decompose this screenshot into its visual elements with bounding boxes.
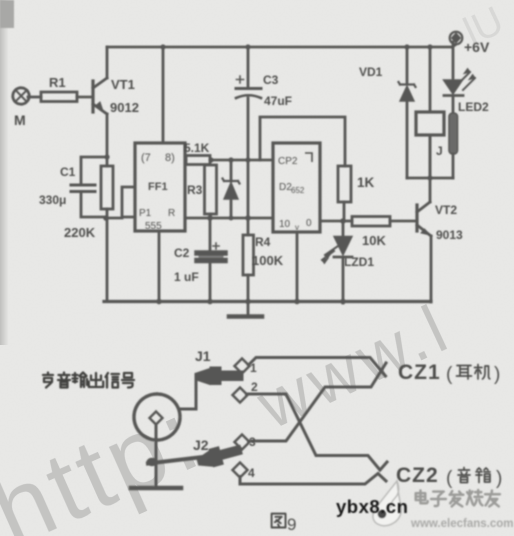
node rail-IC1 dot: [160, 44, 165, 49]
svg-text:100K: 100K: [252, 253, 284, 268]
svg-text:0: 0: [306, 218, 312, 229]
svg-text:M: M: [14, 112, 26, 128]
svg-text:VD1: VD1: [359, 65, 383, 79]
node R4 column top dot: [245, 157, 250, 162]
wire C1 branch top: [81, 157, 107, 184]
node rail-C3 dot: [245, 44, 250, 49]
svg-text:R1: R1: [49, 75, 66, 90]
wire IC1 top pin to rail: [162, 47, 165, 143]
node 1K-10K-LED junction: [340, 218, 346, 224]
svg-text:+6V: +6V: [464, 39, 490, 55]
jack contact 3: [235, 435, 250, 450]
text 电子发烧友 elecfans: [416, 490, 500, 506]
wire C2 top: [209, 218, 212, 250]
resistor 220K: [101, 166, 113, 209]
jack contact 1: [235, 359, 250, 374]
relay coil J: [429, 47, 432, 112]
node J2 tap: [147, 458, 158, 466]
text 耳机 CZ1: [457, 365, 490, 380]
wire VT2 collector up: [429, 135, 432, 202]
svg-text:8): 8): [165, 152, 175, 164]
svg-text:): ): [496, 468, 502, 489]
svg-text:(7: (7: [141, 152, 151, 164]
wire M to R1: [28, 96, 41, 99]
wire R4 to bottom rail: [247, 275, 250, 301]
wire mid line IC1 to IC2: [185, 217, 273, 220]
node diode bottom dot: [229, 216, 234, 221]
svg-text:220K: 220K: [64, 225, 96, 240]
node 220K-C1-IC1 junction: [103, 215, 109, 221]
svg-text:555: 555: [145, 221, 162, 232]
wire 10K to VT2 base: [390, 220, 415, 223]
plug J2: [195, 441, 243, 470]
svg-text:C3: C3: [263, 73, 279, 87]
wire bracket over IC2: [260, 117, 345, 166]
svg-text:www.elecfans.com: www.elecfans.com: [410, 518, 513, 530]
wire contact3 to CZ1 lower: [249, 363, 387, 441]
transistor VT2: [415, 205, 418, 231]
svg-text:652: 652: [291, 186, 305, 195]
wire bottom ground rail: [104, 300, 431, 303]
node rail-VD1 dot: [404, 44, 409, 49]
LOWER DIAGRAM INK: [131, 358, 387, 489]
node C2 top dot: [207, 215, 213, 221]
node rail dots: [156, 299, 162, 305]
svg-text:(: (: [446, 364, 453, 385]
IC internal text: [139, 152, 312, 232]
svg-text:J2: J2: [193, 437, 209, 453]
wire R4 column: [247, 160, 250, 235]
wire C3 to node: [247, 98, 250, 160]
svg-text:): ): [494, 364, 500, 385]
op-amp U1 IC1 box: [135, 143, 185, 231]
svg-text:10K: 10K: [362, 233, 386, 248]
svg-text:330μ: 330μ: [39, 193, 66, 207]
svg-text:C2: C2: [174, 246, 190, 260]
wire contact1 to CZ1 upper: [249, 358, 386, 377]
wire VT2 emitter down: [430, 236, 433, 302]
MAIN CIRCUIT INK: [13, 32, 475, 317]
svg-text:47uF: 47uF: [264, 94, 292, 108]
ground symbol: [247, 303, 250, 314]
svg-text:VT2: VT2: [435, 203, 457, 217]
wire VT1 collector to rail: [106, 47, 109, 78]
LED LZD1: [342, 221, 345, 235]
wire junction to IC1 bracket: [106, 217, 122, 220]
svg-text:9013: 9013: [436, 228, 463, 242]
svg-text:FF1: FF1: [148, 181, 168, 193]
capacitor C2: [197, 250, 225, 256]
svg-text:LED2: LED2: [458, 100, 489, 114]
diode D1: [230, 160, 233, 181]
wire VT1 emitter down: [106, 114, 109, 166]
svg-text:3: 3: [249, 435, 256, 449]
svg-text:CZ2: CZ2: [396, 464, 439, 487]
resistor LED2 series: [452, 96, 455, 113]
resistor 1K: [338, 166, 351, 202]
resistor R4: [243, 235, 254, 275]
svg-text:(: (: [446, 468, 453, 489]
svg-text:2: 2: [251, 380, 258, 394]
svg-text:5.1K: 5.1K: [184, 141, 210, 155]
svg-text:9: 9: [287, 515, 296, 534]
wire 1K to node: [343, 202, 346, 221]
LED LED2: [452, 42, 455, 78]
node relay-VD1-LED2 bottom junction: [427, 175, 432, 180]
wire IC1 pin bracket: [122, 187, 135, 217]
svg-text:1K: 1K: [357, 175, 375, 190]
inner diamond contact: [150, 412, 163, 425]
node R4 mid dot: [245, 215, 251, 221]
svg-text:P1: P1: [139, 208, 152, 219]
wire 5.1K line to IC2: [210, 159, 273, 162]
svg-text:ybx8.cn: ybx8.cn: [336, 496, 408, 517]
jack contact 4: [233, 463, 248, 478]
node VT1-C1 junction: [104, 154, 109, 159]
text 音箱 CZ2: [458, 468, 490, 483]
svg-text:LZD1: LZD1: [344, 255, 374, 269]
transistor VT1: [91, 81, 94, 112]
node R3 top dot: [208, 157, 213, 162]
wire circle to J1: [180, 377, 196, 409]
wire 220K to bottom rail: [106, 209, 109, 301]
wire top +6V rail: [107, 46, 452, 49]
ground bar: [131, 486, 181, 491]
IC2 box: [273, 143, 320, 232]
resistor R1: [41, 92, 77, 102]
text 图9 caption: [272, 514, 286, 528]
svg-text:R3: R3: [187, 183, 203, 197]
wire C2 to bottom rail: [209, 262, 212, 301]
wire contact4 to CZ2 lower: [240, 474, 386, 485]
svg-text:R: R: [168, 208, 175, 219]
wire R1 to VT1 base: [77, 96, 92, 99]
wire IC2 right pin: [320, 220, 343, 223]
svg-text:9012: 9012: [110, 100, 139, 115]
svg-text:v: v: [295, 223, 299, 232]
node rail-J dot: [427, 44, 432, 49]
text 声音输出信号: [43, 373, 134, 388]
jack contact 2: [233, 388, 248, 403]
resistor R3: [205, 165, 217, 214]
svg-text:1: 1: [250, 361, 257, 375]
plug J1: [195, 367, 243, 385]
svg-text:10: 10: [279, 219, 291, 230]
wire R3 bottom stub: [209, 214, 212, 218]
svg-text:C1: C1: [60, 165, 76, 179]
capacitor C3: [247, 47, 250, 86]
wire bottom connector right section: [407, 177, 453, 180]
svg-text:J1: J1: [195, 348, 211, 364]
wire C1 branch bottom: [81, 193, 104, 217]
svg-text:1 uF: 1 uF: [174, 270, 199, 284]
svg-text:CP2: CP2: [278, 156, 298, 167]
capacitor C1: [71, 184, 95, 187]
+6V terminal: [452, 45, 455, 47]
resistor 5.1K: [185, 159, 186, 162]
wire sleeve down: [155, 425, 158, 487]
phone plug socket circle: [134, 394, 180, 440]
resistor 10K: [343, 220, 352, 223]
svg-text:R4: R4: [255, 235, 271, 249]
svg-text:4: 4: [248, 466, 255, 480]
elecfans drop logo: [373, 481, 401, 526]
wire J2 from sleeve: [148, 457, 207, 464]
svg-text:J: J: [436, 144, 443, 158]
wire IC1 ground pin: [158, 231, 161, 301]
diode VD1: [406, 47, 409, 84]
svg-text:VT1: VT1: [111, 77, 135, 92]
wire contact2 to CZ2 upper: [247, 394, 388, 470]
svg-text:CZ1: CZ1: [398, 361, 441, 384]
microphone M: [13, 88, 29, 104]
wire IC2 ground pin: [296, 232, 299, 302]
node diode top dot: [228, 157, 233, 162]
